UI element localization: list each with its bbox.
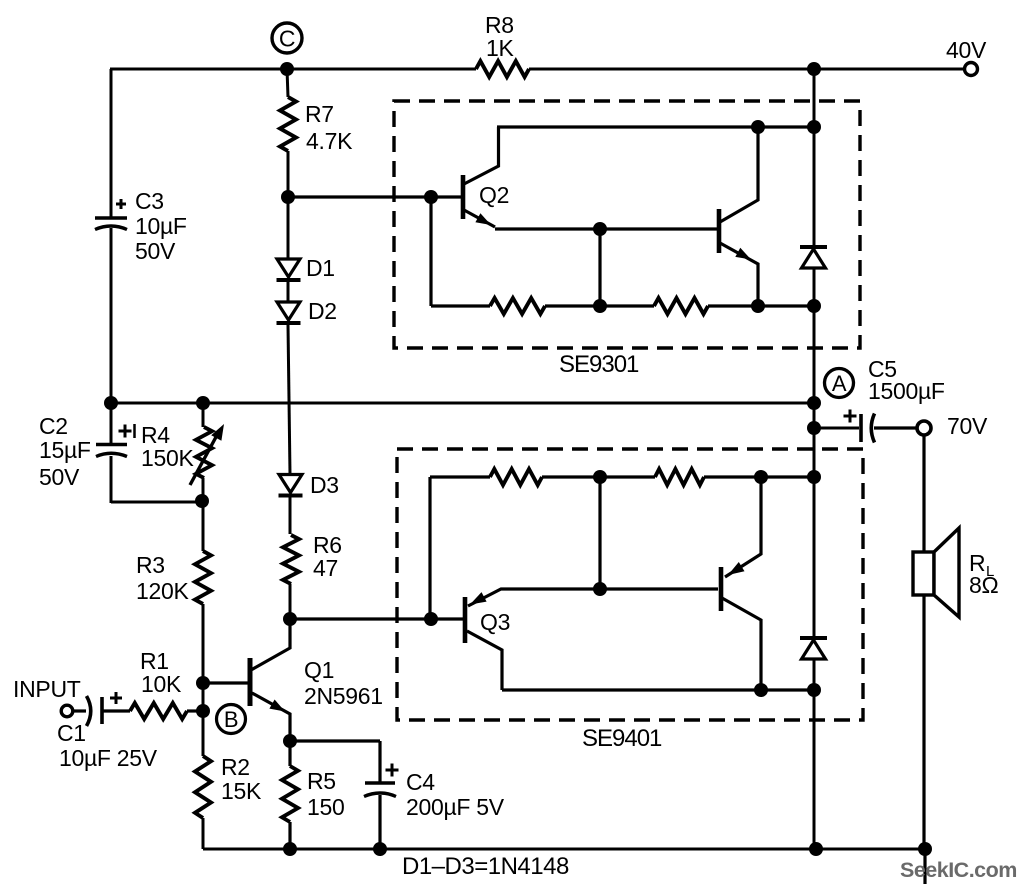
diode (SE9301 internal) [800, 245, 827, 249]
junction [593, 222, 607, 236]
resistor R2 [195, 756, 211, 818]
svg-text:10K: 10K [141, 671, 182, 697]
svg-text:C: C [279, 26, 295, 52]
wire [203, 681, 248, 684]
resistor R6 [283, 535, 299, 584]
svg-text:C1: C1 [57, 720, 86, 746]
wire [923, 849, 926, 884]
svg-text:D1: D1 [306, 255, 335, 281]
junction [424, 190, 438, 204]
node C [272, 23, 302, 53]
svg-text:D3: D3 [310, 472, 339, 498]
wire [497, 125, 814, 128]
capacitor C1 [87, 696, 91, 726]
resistor R1 [130, 703, 187, 719]
junction [196, 704, 210, 718]
svg-text:SE9401: SE9401 [582, 725, 662, 752]
junction [807, 120, 821, 134]
junction [281, 190, 295, 204]
wire [430, 475, 490, 478]
diode D3 [279, 475, 302, 493]
junction [373, 842, 387, 856]
junction [751, 299, 765, 313]
svg-text:SE9301: SE9301 [559, 351, 639, 378]
svg-text:15K: 15K [221, 778, 262, 804]
IC box SE9401 [397, 449, 863, 720]
svg-text:R3: R3 [136, 552, 165, 578]
junction [593, 299, 607, 313]
wire [874, 426, 918, 429]
wire [287, 282, 290, 303]
wire [288, 741, 291, 766]
diode D2 [277, 302, 300, 320]
svg-text:SeekIC.com: SeekIC.com [900, 858, 1017, 882]
svg-text:R2: R2 [221, 754, 250, 780]
junction [593, 582, 607, 596]
junction [807, 62, 821, 76]
resistor R3 [195, 551, 211, 604]
junction [809, 842, 823, 856]
svg-text:Q2: Q2 [479, 182, 509, 208]
junction [195, 494, 209, 508]
wire [103, 709, 130, 712]
node B [217, 705, 246, 734]
wire [428, 477, 431, 619]
capacitor C4 [365, 781, 395, 784]
junction [807, 470, 821, 484]
wire [110, 69, 113, 218]
resistor R5 [282, 766, 298, 822]
wire [378, 741, 381, 783]
svg-text:150: 150 [307, 794, 344, 820]
svg-text:50V: 50V [135, 238, 176, 264]
svg-text:1500µF: 1500µF [868, 378, 945, 404]
svg-text:4.7K: 4.7K [306, 128, 353, 154]
wire [708, 304, 814, 307]
capacitor C3 [95, 216, 127, 219]
speaker RL [913, 552, 934, 595]
resistor (SE9401 internal right) [655, 469, 704, 485]
svg-text:D1–D3=1N4148: D1–D3=1N4148 [402, 853, 569, 880]
junction [918, 842, 932, 856]
terminal 70V [917, 421, 931, 435]
wire [290, 739, 380, 742]
wire [110, 68, 476, 71]
transistor Q2 [461, 175, 466, 219]
svg-text:40V: 40V [946, 37, 987, 63]
junction [424, 612, 438, 626]
junction [751, 120, 765, 134]
junction [807, 421, 821, 435]
terminal INPUT [61, 705, 73, 717]
svg-text:B: B [224, 707, 238, 732]
resistor R8 [476, 61, 529, 77]
resistor (SE9301 internal right) [654, 298, 708, 314]
junction [196, 396, 210, 410]
wire [378, 795, 381, 849]
junction [283, 734, 297, 748]
svg-text:INPUT: INPUT [13, 676, 81, 702]
svg-text:A: A [832, 371, 847, 396]
svg-text:2N5961: 2N5961 [304, 683, 383, 709]
svg-text:C4: C4 [406, 769, 435, 795]
svg-text:150K: 150K [141, 445, 194, 471]
resistor R7 [280, 97, 296, 151]
svg-text:10µF: 10µF [135, 213, 187, 239]
terminal 40V [965, 63, 978, 76]
wire [111, 501, 203, 504]
junction [104, 396, 118, 410]
wire [111, 402, 814, 405]
svg-text:C2: C2 [39, 413, 68, 439]
capacitor C2 [96, 443, 127, 446]
wire [203, 848, 926, 851]
junction [754, 470, 768, 484]
junction [283, 612, 297, 626]
svg-text:R5: R5 [307, 768, 336, 794]
wire [110, 228, 113, 403]
svg-text:200µF 5V: 200µF 5V [406, 794, 505, 820]
junction [280, 62, 294, 76]
wire [290, 617, 464, 620]
wire [813, 659, 816, 849]
junction [807, 683, 821, 697]
wire [288, 822, 291, 849]
svg-text:70V: 70V [947, 413, 988, 439]
wire [922, 435, 925, 552]
svg-text:Q3: Q3 [480, 609, 510, 635]
wire [429, 197, 432, 306]
wire [529, 68, 964, 71]
node A [825, 369, 854, 398]
wire [202, 502, 205, 551]
svg-text:C3: C3 [135, 188, 164, 214]
wire [110, 456, 113, 503]
wire [813, 69, 816, 247]
junction [754, 683, 768, 697]
wire [813, 268, 816, 638]
wire [288, 325, 290, 474]
svg-text:D2: D2 [308, 298, 337, 324]
junction [807, 299, 821, 313]
wire [502, 688, 814, 691]
svg-text:10µF 25V: 10µF 25V [59, 745, 158, 771]
junction [283, 842, 297, 856]
wire [704, 475, 814, 478]
wire [73, 709, 86, 712]
diode (SE9401 internal) [800, 636, 827, 640]
wire [545, 304, 654, 307]
wire [598, 477, 601, 589]
svg-text:Q1: Q1 [304, 657, 334, 683]
wire [495, 227, 717, 230]
svg-text:120K: 120K [136, 578, 189, 604]
svg-text:8Ω: 8Ω [969, 572, 998, 598]
wire [289, 497, 292, 534]
wire [187, 709, 203, 712]
wire [431, 304, 490, 307]
wire [287, 69, 288, 97]
wire [288, 195, 464, 198]
wire [202, 604, 205, 756]
IC box SE9301 [394, 101, 860, 348]
transistor Q3 [463, 597, 468, 643]
wire [542, 475, 655, 478]
transistor Q1 [248, 658, 253, 706]
wire [598, 229, 601, 306]
resistor R4 [202, 403, 205, 427]
wire [289, 584, 292, 619]
junction [196, 676, 210, 690]
capacitor C5 [814, 427, 859, 430]
svg-text:47: 47 [313, 555, 338, 581]
svg-text:15µF: 15µF [39, 437, 91, 463]
resistor (SE9401 internal left) [490, 469, 542, 485]
wire [110, 404, 113, 445]
transistor Q2b [717, 209, 722, 253]
svg-text:50V: 50V [39, 464, 80, 490]
svg-text:R7: R7 [305, 101, 334, 127]
diode D1 [277, 259, 300, 277]
svg-text:1K: 1K [486, 35, 514, 61]
wire [922, 595, 925, 849]
junction [593, 470, 607, 484]
junction [807, 396, 821, 410]
transistor Q3b [719, 567, 724, 611]
wire [202, 818, 205, 849]
resistor (SE9301 internal left) [490, 298, 545, 314]
wire [287, 151, 290, 260]
